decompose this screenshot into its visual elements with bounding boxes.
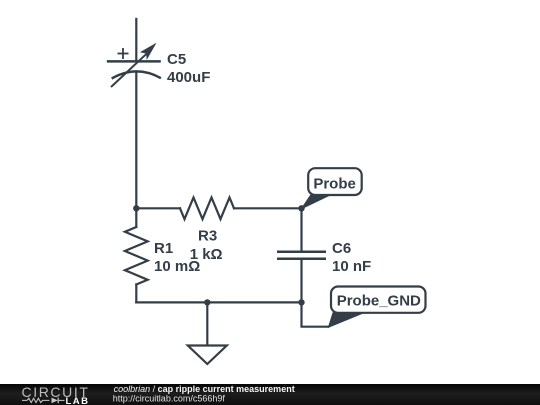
C5 plus sign	[118, 48, 129, 59]
svg-text:LAB: LAB	[66, 396, 90, 405]
Probe flag	[308, 168, 362, 195]
svg-text:10 nF: 10 nF	[332, 258, 371, 275]
logo squiggle resistor	[22, 398, 50, 402]
svg-text:C6: C6	[332, 240, 351, 257]
svg-text:http://circuitlab.com/c566h9f: http://circuitlab.com/c566h9f	[113, 394, 226, 404]
C5 bottom curved plate	[112, 71, 161, 78]
Probe flag tail	[302, 195, 330, 209]
svg-text:R1: R1	[154, 240, 173, 257]
C5 variable arrow line	[111, 54, 147, 87]
wire top vertical into C5	[135, 19, 137, 61]
svg-text:400uF: 400uF	[167, 69, 210, 86]
wire node A to R3 left	[136, 207, 180, 209]
svg-text:Probe: Probe	[313, 176, 356, 193]
svg-text:R3: R3	[198, 228, 217, 245]
svg-text:C5: C5	[167, 51, 186, 68]
node D junction dot	[298, 299, 304, 305]
svg-text:10 mΩ: 10 mΩ	[154, 258, 200, 275]
capacitor C6 plates	[277, 252, 326, 259]
resistor R3 zigzag	[180, 198, 234, 220]
wire R1 bottom	[135, 285, 137, 303]
wire node A down to R1	[135, 208, 137, 227]
wire C6 bottom to node D	[300, 259, 302, 302]
wire R3 right to node B	[234, 207, 302, 209]
wire C5 bottom to node A	[135, 74, 137, 209]
ground	[188, 346, 227, 365]
wire node D to Probe_GND tail	[302, 302, 329, 326]
resistor R1 zigzag	[125, 227, 148, 285]
wire node B down to C6	[300, 208, 302, 251]
svg-text:Probe_GND: Probe_GND	[337, 292, 421, 309]
logo diode	[52, 398, 58, 404]
C5 top plate	[107, 60, 161, 63]
node B junction dot	[298, 205, 304, 211]
capacitor C5 symbol	[107, 54, 161, 87]
node A junction dot	[133, 205, 139, 211]
node C junction dot (ground)	[204, 299, 210, 305]
wire bottom horizontal	[136, 301, 301, 303]
wire ground stem	[206, 302, 208, 345]
C5 arrowhead	[140, 43, 157, 60]
Probe_GND flag tail	[329, 313, 365, 328]
Probe_GND flag	[331, 287, 426, 313]
